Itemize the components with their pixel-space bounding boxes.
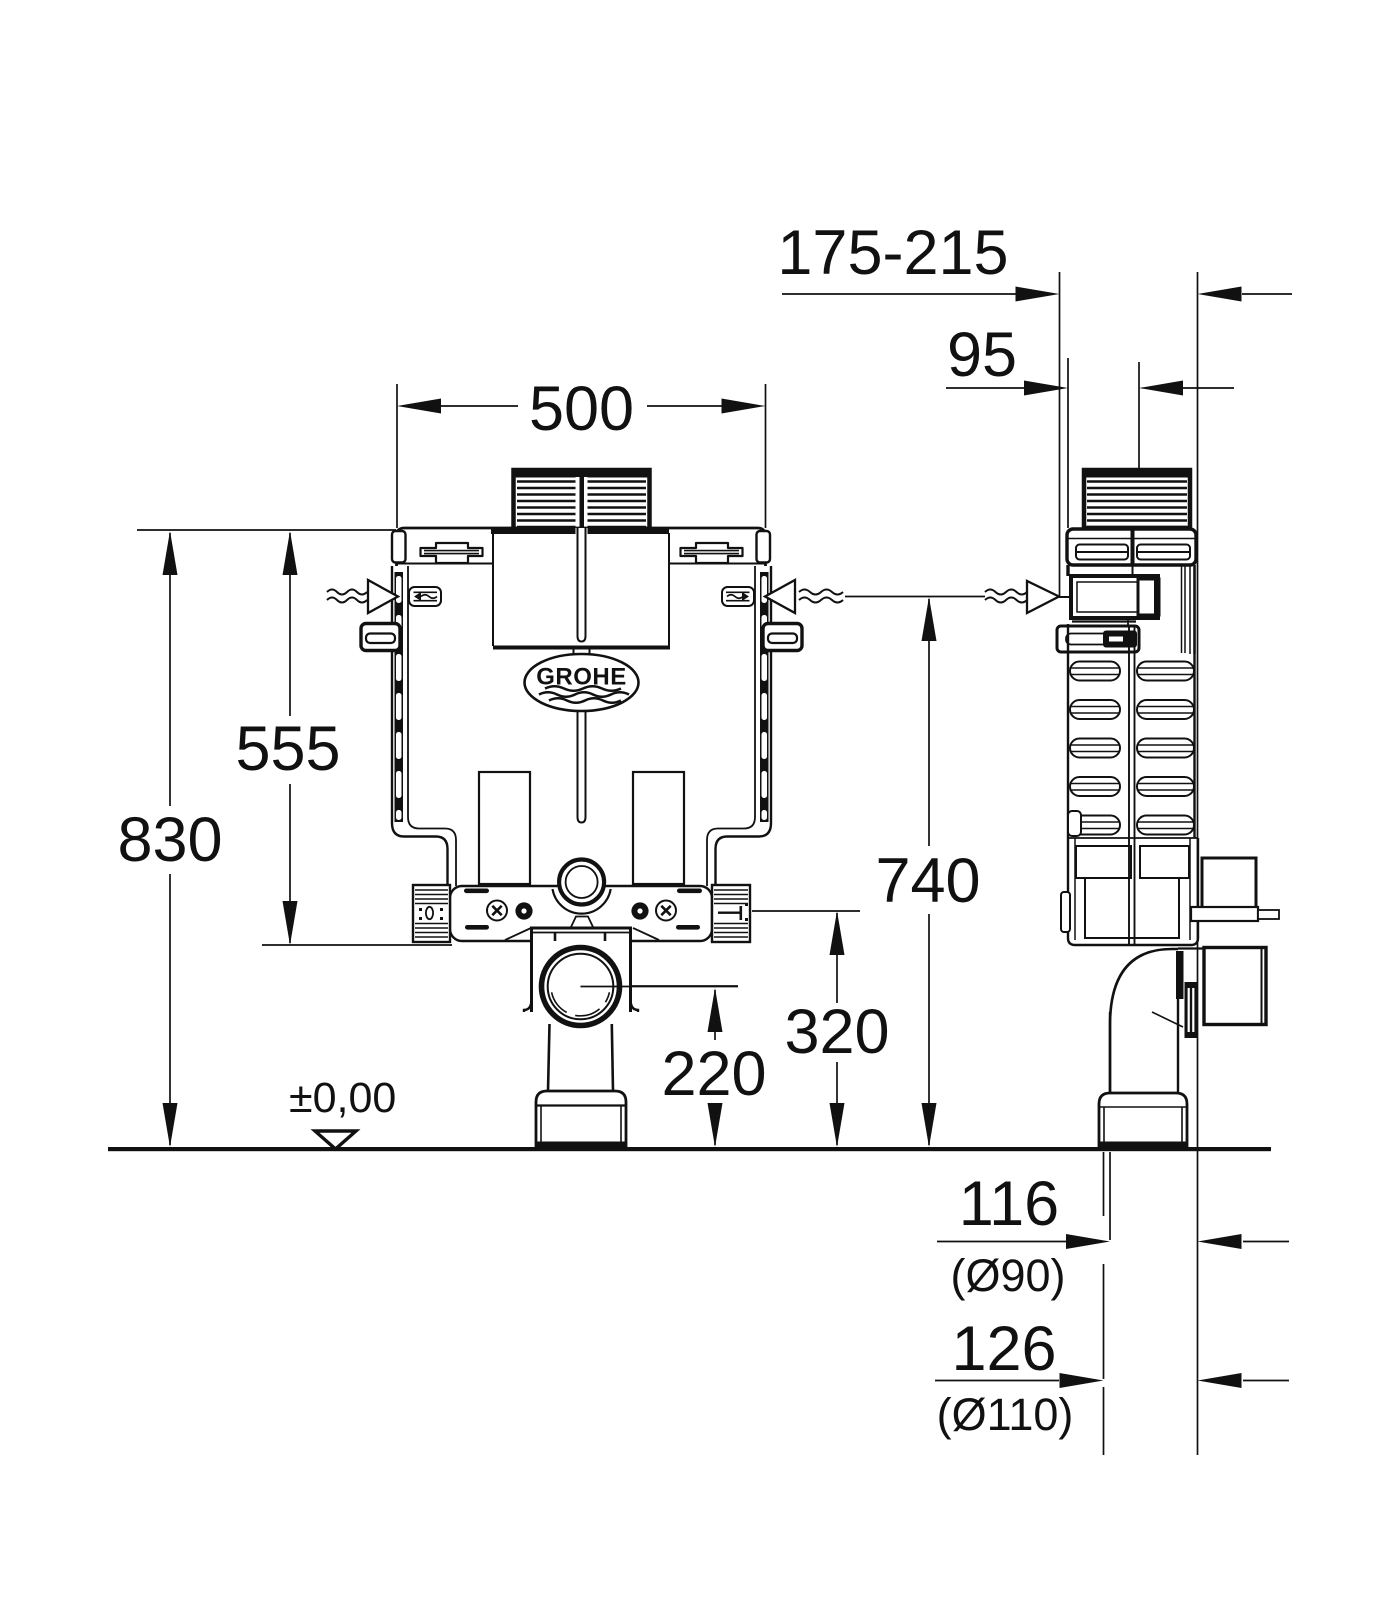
svg-text:(Ø110): (Ø110)	[937, 1389, 1074, 1440]
svg-text:320: 320	[784, 997, 889, 1067]
svg-text:175-215: 175-215	[777, 218, 1008, 288]
svg-text:95: 95	[947, 320, 1017, 390]
svg-text:555: 555	[235, 714, 340, 784]
svg-text:116: 116	[959, 1169, 1059, 1239]
svg-text:740: 740	[875, 846, 980, 916]
svg-text:126: 126	[951, 1314, 1056, 1384]
svg-text:500: 500	[529, 374, 634, 444]
svg-text:(Ø90): (Ø90)	[950, 1250, 1065, 1301]
svg-text:830: 830	[117, 805, 222, 875]
svg-text:±0,00: ±0,00	[289, 1074, 396, 1122]
svg-text:220: 220	[661, 1039, 766, 1109]
